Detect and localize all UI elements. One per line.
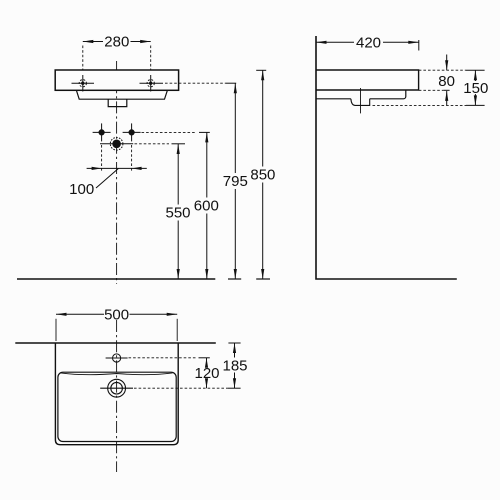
extension line right of 280 (dash-dot) [150, 46, 152, 91]
dimension 280 line [83, 41, 151, 43]
dashed reference at drain level plan [134, 387, 228, 389]
basin plan outline [55, 343, 178, 445]
basin side profile main [316, 70, 419, 90]
floor tick 795 [228, 278, 241, 280]
dimension 120 [206, 358, 208, 367]
extension line right of 420 [418, 40, 420, 51]
tap hole plan [106, 354, 128, 362]
drain plan [100, 379, 133, 397]
dimension 80 [446, 55, 448, 71]
fixing hole left (front) [93, 123, 111, 141]
dimension 100 leader [96, 168, 119, 188]
dimension 100 arrows [92, 167, 102, 170]
floor line front view [17, 278, 215, 280]
dashed reference line at fixing level [142, 131, 197, 133]
dimension 420 line [316, 41, 419, 43]
tap hole left (front) [72, 75, 95, 92]
dashed reference at tap level plan [129, 357, 198, 359]
centerline front view [116, 61, 118, 284]
tap hole right (front) [140, 75, 164, 92]
top tick 850 [256, 69, 266, 71]
bowl trapezoid front [76, 90, 167, 99]
svg-text:600: 600 [194, 198, 219, 215]
extension lines 500 [55, 319, 57, 341]
dimension 600 vertical [206, 132, 208, 279]
basin side profile lower step [316, 90, 406, 99]
svg-text:100: 100 [69, 181, 94, 198]
bowl plan outline [58, 372, 176, 441]
svg-text:185: 185 [222, 358, 247, 375]
dimension 150 [474, 70, 476, 81]
svg-text:850: 850 [250, 167, 275, 184]
svg-text:80: 80 [438, 73, 455, 90]
dimension 280 arrows [83, 40, 94, 43]
dimension 100 line [87, 167, 147, 169]
dimension 795 vertical [234, 83, 236, 279]
dimension 550 vertical [177, 144, 179, 279]
svg-text:280: 280 [104, 34, 129, 51]
fixing hole right (front) [123, 123, 141, 141]
drain notch side [351, 99, 370, 106]
basin front outline [55, 70, 178, 90]
dashed reference line at drain level [135, 143, 170, 145]
drain hole (front) [100, 138, 133, 151]
dimension 500 line [56, 313, 177, 315]
floor tick 850 [256, 278, 270, 280]
dashed line top-of-basin level [419, 69, 466, 71]
dashed reference line at tap level [165, 82, 225, 84]
extension line left of 280 (dash-dot) [82, 46, 84, 91]
wall and floor line side view [316, 36, 457, 279]
dimension 185 [228, 342, 240, 344]
bowl front edge curve [61, 373, 173, 375]
svg-text:550: 550 [165, 205, 190, 222]
dashed line drain outlet level [373, 104, 467, 106]
dimension 850 vertical [262, 70, 264, 279]
fixing extension lines down (dash) [101, 145, 103, 172]
svg-text:795: 795 [223, 173, 248, 190]
drain spout box front [108, 99, 127, 106]
svg-text:420: 420 [356, 34, 381, 51]
dashed line bottom-of-rim level [419, 89, 444, 91]
centerline plan view [116, 320, 118, 472]
wall line plan view [15, 342, 216, 344]
drain centerline side [360, 88, 362, 113]
